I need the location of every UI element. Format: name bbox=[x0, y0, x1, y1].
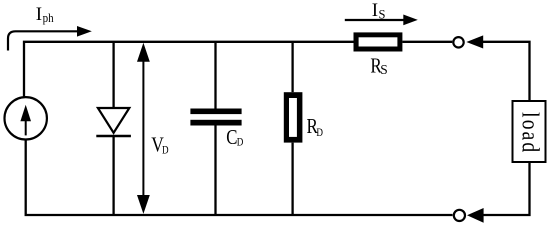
svg-text:S: S bbox=[380, 62, 387, 77]
svg-text:load: load bbox=[517, 112, 545, 154]
svg-text:I: I bbox=[36, 4, 42, 25]
svg-text:ph: ph bbox=[43, 10, 54, 25]
svg-text:S: S bbox=[379, 7, 386, 21]
svg-text:D: D bbox=[316, 127, 323, 139]
svg-text:D: D bbox=[162, 145, 169, 157]
svg-text:I: I bbox=[372, 0, 378, 21]
svg-text:D: D bbox=[237, 136, 244, 148]
